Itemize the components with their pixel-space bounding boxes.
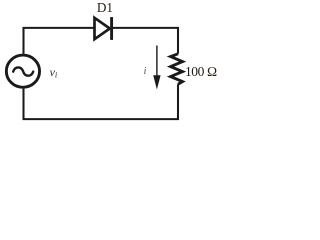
svg-text:i: i — [144, 66, 147, 77]
svg-text:D1: D1 — [97, 0, 113, 15]
svg-text:100 Ω: 100 Ω — [185, 64, 217, 79]
